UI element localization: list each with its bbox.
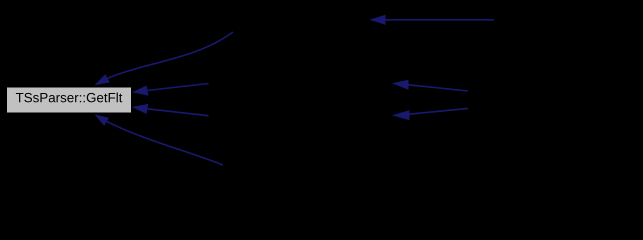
edge E: arrow from right node to middle node 1 [392,80,468,91]
edge D: straight edge from middle node 2 into right side of GetFlt box [132,104,209,116]
edge C: straight edge from middle node 1 into right side of GetFlt box [132,84,209,96]
edge B: long arc from top-middle node into top of GetFlt box [94,32,233,85]
node TSsParser::GetFlt (current node box) [7,87,132,113]
edge F: arrow from right node to middle node 2 [392,108,468,120]
edge G: bottom arc from bottom-middle node into bottom of GetFlt box [95,115,223,166]
edge A: top horizontal arrow (node5 -> node4) [370,15,495,25]
